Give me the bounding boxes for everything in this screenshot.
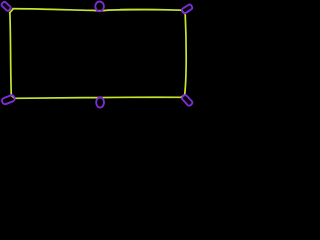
- pin top-right: [181, 4, 193, 14]
- wire top edge: [13, 9, 182, 11]
- pin bottom-middle: [96, 97, 104, 107]
- wire bottom edge: [15, 97, 181, 98]
- wire bottom-left corner kink: [11, 96, 14, 99]
- wire top-left corner kink: [10, 9, 14, 13]
- pin top-left: [1, 1, 12, 11]
- wire top edge second sketch stroke: [120, 8, 170, 11]
- wire right edge: [185, 14, 186, 95]
- pin bottom-right: [181, 94, 193, 106]
- wire left edge: [10, 13, 11, 96]
- wire top-right corner kink: [181, 10, 185, 14]
- pin bottom-left: [1, 94, 15, 105]
- wire bottom-right corner kink: [181, 95, 185, 98]
- pin top-middle: [95, 2, 104, 12]
